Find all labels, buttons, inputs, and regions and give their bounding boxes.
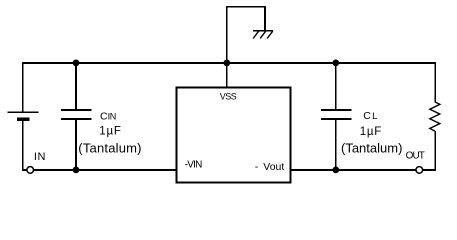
capacitor CIN top plate [61, 109, 92, 111]
wire: CIN bottom lead [75, 119, 77, 171]
svg-text:(Tantalum): (Tantalum) [78, 140, 141, 155]
wire: jog to ground (horizontal) [226, 6, 265, 8]
wire: load resistor top lead (right vertical) [434, 62, 436, 102]
capacitor CL top plate [321, 109, 352, 111]
wire: CIN top lead [75, 62, 77, 111]
capacitor CIN bottom plate [61, 118, 92, 120]
svg-text:-VIN: -VIN [185, 160, 202, 171]
junction dot: top rail at CL [332, 60, 339, 67]
junction dot: top rail at CIN [73, 60, 80, 67]
node IN terminal (open circle) [27, 167, 34, 174]
wire: bottom rail left segment (to IC box left pin) [22, 169, 177, 171]
svg-text:CL: CL [363, 110, 377, 122]
svg-text:IN: IN [34, 151, 46, 163]
capacitor CL bottom plate [321, 118, 352, 120]
wire: CL top lead [335, 62, 337, 111]
svg-text:VSS: VSS [220, 91, 237, 101]
junction dot: bottom rail at CL [332, 167, 339, 174]
battery B1 short thick plate [17, 118, 30, 121]
wire: battery negative lead down to bottom rail [22, 119, 24, 171]
op-amp/IC box U1 [177, 88, 291, 183]
resistor RL zigzag [430, 102, 440, 131]
node OUT terminal (open circle) [416, 167, 423, 174]
svg-text:CIN: CIN [100, 111, 116, 123]
svg-text:1µF: 1µF [99, 126, 121, 138]
ground (chassis) symbol [253, 31, 273, 39]
wire: load resistor bottom lead [434, 131, 436, 171]
svg-text:OUT: OUT [406, 151, 425, 162]
wire: top rail [22, 62, 436, 64]
wire: CL bottom lead [335, 119, 337, 171]
junction dot: top rail at VSS [223, 60, 230, 67]
junction dot: bottom rail at CIN [73, 167, 80, 174]
wire: ground drop (vertical) [264, 6, 266, 31]
svg-text:1µF: 1µF [360, 126, 382, 138]
wire: battery positive lead (left vertical, rail to plate) [22, 62, 24, 112]
wire: VSS vertical (ground tee down to IC box top) [226, 7, 228, 89]
svg-text:(Tantalum): (Tantalum) [341, 140, 402, 155]
battery B1 long plate [8, 111, 39, 113]
wire: bottom rail right segment (IC box right pin to right branch) [291, 169, 437, 171]
